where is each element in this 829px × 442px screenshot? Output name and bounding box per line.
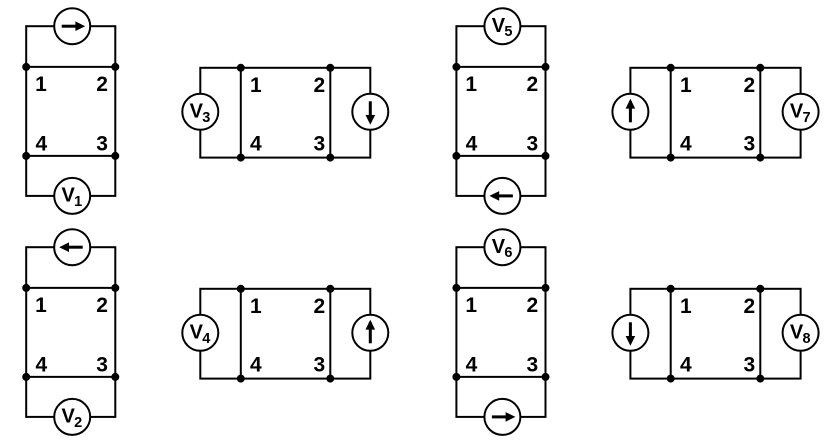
svg-text:2: 2 [313,74,325,97]
svg-text:4: 4 [466,132,478,155]
svg-text:8: 8 [803,331,811,347]
circuit 5 outer loop wire [26,247,115,417]
circuit 1 node pin 3 [111,152,119,160]
circuit 6 box left edge wire (pins 1-4) [240,289,242,379]
circuit 5 node pin 2 [111,284,119,292]
svg-text:1: 1 [465,294,477,317]
svg-text:1: 1 [680,74,692,97]
svg-text:4: 4 [680,354,692,377]
svg-text:1: 1 [250,74,262,97]
svg-text:4: 4 [250,354,262,377]
circuit 2 node pin 3 [326,154,334,162]
svg-text:4: 4 [466,353,478,376]
circuit 7 box bottom edge wire (pins 4-3) [456,376,545,378]
circuit 8 current source (arrow down) on left wire [612,315,648,351]
svg-text:3: 3 [202,110,210,126]
circuit 3 voltmeter V5 on top wire [484,8,520,44]
circuit 4 voltmeter V7 on right wire [783,94,819,130]
circuit 6 voltmeter V4 on left wire [182,315,218,351]
svg-text:4: 4 [250,133,262,156]
svg-text:7: 7 [803,110,811,126]
circuit 4 current source (arrow up) on left wire [612,94,648,130]
circuit 6 node pin 2 [326,285,334,293]
circuit 5 node pin 1 [22,284,30,292]
circuit 1 node pin 1 [22,63,30,71]
svg-text:2: 2 [743,295,755,318]
circuit 8 node pin 2 [756,285,764,293]
circuit 8 voltmeter V8 on right wire [783,315,819,351]
svg-text:2: 2 [96,73,108,96]
svg-text:1: 1 [465,73,477,96]
circuit 7 node pin 3 [542,373,550,381]
svg-text:3: 3 [526,353,538,376]
svg-text:1: 1 [680,295,692,318]
circuit 7 node pin 1 [452,284,460,292]
circuit 8 node pin 4 [667,375,675,383]
circuit 6 node pin 1 [237,285,245,293]
circuit 4 node pin 1 [667,64,675,72]
circuit 7 node pin 2 [542,284,550,292]
circuit 7 current source (arrow right) on bottom wire [484,399,520,435]
circuit 5 voltmeter V2 on bottom wire [54,399,90,435]
svg-text:3: 3 [743,133,755,156]
circuit 5 box bottom edge wire (pins 4-3) [26,376,115,378]
circuit 1 box top edge wire (pins 1-2) [26,66,115,68]
svg-text:3: 3 [96,132,108,155]
circuit 1 box bottom edge wire (pins 4-3) [26,155,115,157]
svg-text:5: 5 [504,24,512,40]
circuit 2 current source (arrow down) on right wire [352,94,388,130]
svg-text:2: 2 [526,73,538,96]
svg-text:3: 3 [313,354,325,377]
svg-text:4: 4 [202,331,210,347]
svg-text:4: 4 [680,133,692,156]
circuit 3 node pin 3 [542,152,550,160]
circuit 6 current source (arrow up) on right wire [352,315,388,351]
circuit 1 current source (arrow right) on top wire [54,8,90,44]
svg-text:2: 2 [526,294,538,317]
svg-text:1: 1 [35,294,47,317]
circuit 4 box left edge wire (pins 1-4) [670,68,672,158]
circuit 8 box right edge wire (pins 2-3) [759,289,761,379]
circuit 3 node pin 4 [452,152,460,160]
circuit 3 box top edge wire (pins 1-2) [456,66,545,68]
svg-text:2: 2 [313,295,325,318]
circuit 7 box top edge wire (pins 1-2) [456,287,545,289]
svg-text:6: 6 [504,245,512,261]
circuit 8 node pin 1 [667,285,675,293]
circuit 6 outer loop wire [200,289,370,379]
circuit 1 node pin 2 [111,63,119,71]
circuit 2 box right edge wire (pins 2-3) [329,68,331,158]
circuit 5 box top edge wire (pins 1-2) [26,287,115,289]
circuit 8 outer loop wire [630,289,800,379]
circuit 7 outer loop wire [456,247,545,417]
circuit 4 node pin 4 [667,154,675,162]
circuit 2 node pin 1 [237,64,245,72]
svg-text:3: 3 [313,133,325,156]
circuit 6 node pin 4 [237,375,245,383]
circuit 4 node pin 2 [756,64,764,72]
circuit 6 node pin 3 [326,375,334,383]
svg-text:2: 2 [743,74,755,97]
svg-text:2: 2 [74,415,82,431]
circuit 2 node pin 4 [237,154,245,162]
circuit 7 node pin 4 [452,373,460,381]
svg-text:3: 3 [743,354,755,377]
circuit 2 node pin 2 [326,64,334,72]
circuit 4 node pin 3 [756,154,764,162]
circuit 6 box right edge wire (pins 2-3) [329,289,331,379]
circuit 3 current source (arrow left) on bottom wire [484,178,520,214]
circuit 3 node pin 2 [542,63,550,71]
svg-text:2: 2 [96,294,108,317]
circuit 1 outer loop wire [26,26,115,196]
circuit 4 outer loop wire [630,68,800,158]
svg-text:3: 3 [96,353,108,376]
circuit 3 outer loop wire [456,26,545,196]
svg-text:1: 1 [74,194,82,210]
circuit 1 voltmeter V1 on bottom wire [54,178,90,214]
circuit 4 box right edge wire (pins 2-3) [759,68,761,158]
svg-text:4: 4 [35,353,47,376]
circuit 2 voltmeter V3 on left wire [182,94,218,130]
circuit 2 outer loop wire [200,68,370,158]
circuit 3 box bottom edge wire (pins 4-3) [456,155,545,157]
circuit 3 node pin 1 [452,63,460,71]
circuit 7 voltmeter V6 on top wire [484,229,520,265]
circuit 5 current source (arrow left) on top wire [54,229,90,265]
circuit 8 node pin 3 [756,375,764,383]
svg-text:1: 1 [250,295,262,318]
circuit 5 node pin 3 [111,373,119,381]
circuit 2 box left edge wire (pins 1-4) [240,68,242,158]
circuit 8 box left edge wire (pins 1-4) [670,289,672,379]
svg-text:1: 1 [35,73,47,96]
svg-text:3: 3 [526,132,538,155]
circuit 1 node pin 4 [22,152,30,160]
circuit 5 node pin 4 [22,373,30,381]
svg-text:4: 4 [35,132,47,155]
